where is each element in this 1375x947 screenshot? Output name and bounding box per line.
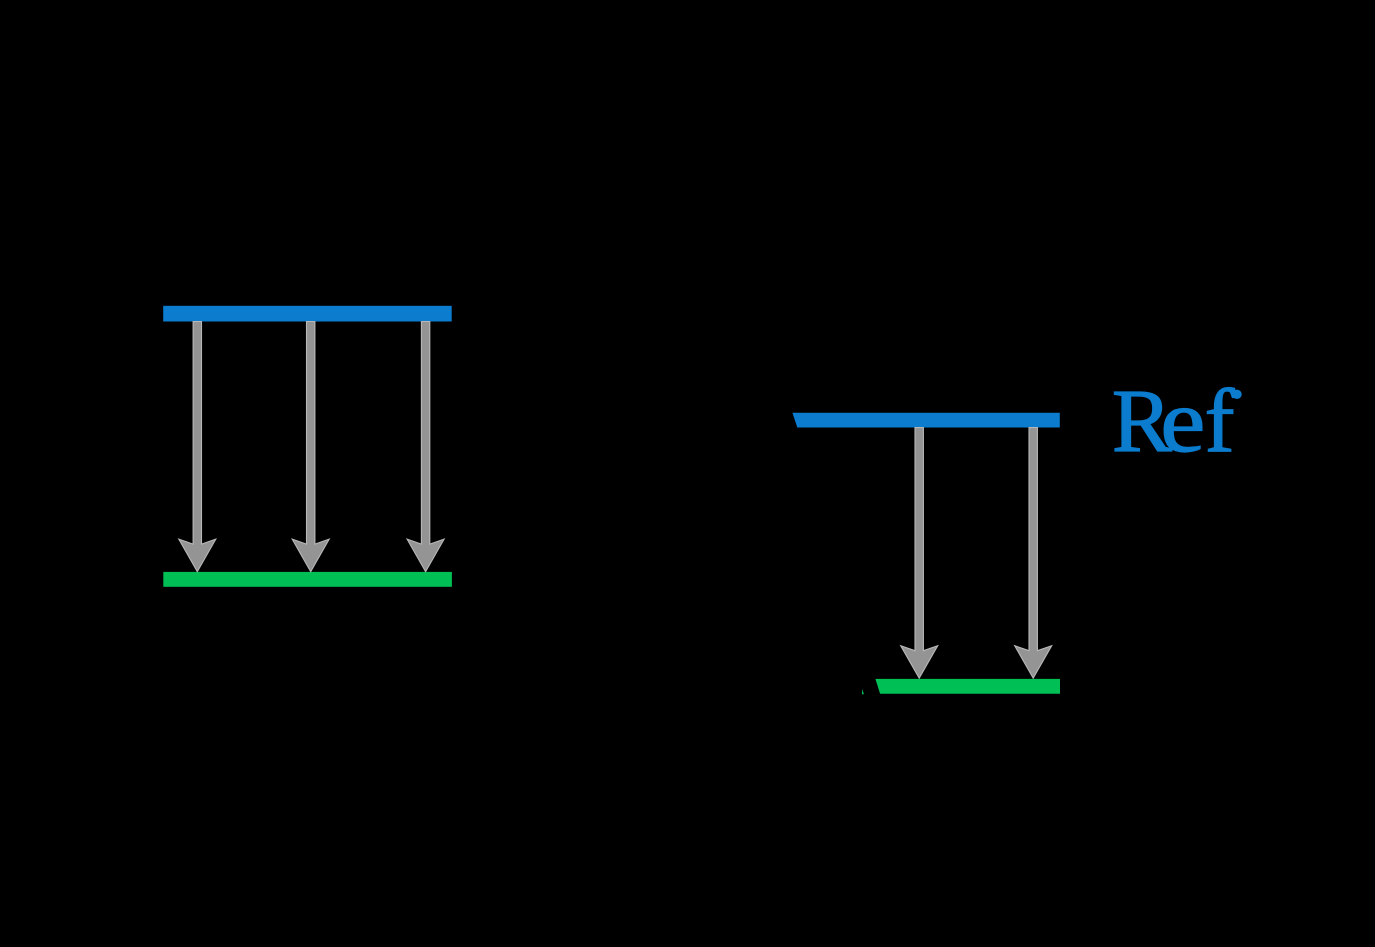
upper level bar (left diagram, blue) — [163, 306, 452, 322]
lower level bar (right diagram, green, slanted left end) — [875, 679, 1060, 694]
decay arrow 4 (right diagram) — [901, 428, 938, 679]
decay arrow 5 (right diagram) — [1015, 428, 1052, 679]
green sliver fragment — [862, 689, 864, 694]
svg-text:e: e — [1160, 370, 1205, 470]
decay arrow 1 (left diagram) — [179, 322, 216, 572]
decay arrow 2 (left diagram) — [292, 322, 329, 572]
svg-text:f: f — [1205, 372, 1235, 471]
label Ref — [1112, 370, 1242, 471]
decay arrow 3 (left diagram) — [407, 322, 444, 572]
lower level bar (left diagram, green) — [163, 572, 452, 587]
upper level bar (right diagram, blue, slanted left end) — [792, 413, 1059, 428]
